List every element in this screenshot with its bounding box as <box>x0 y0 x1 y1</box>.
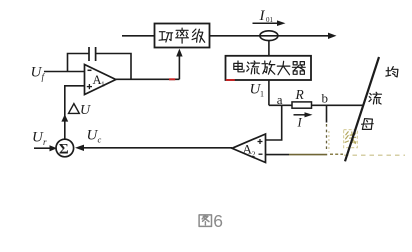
block current amplifier (dianliu fangdaqi) <box>226 56 312 80</box>
svg-text:b: b <box>322 91 329 106</box>
wire power stage output to right with arrow <box>210 35 329 37</box>
label Io1 with arrow <box>253 8 286 26</box>
wire sensor to current amp <box>268 41 270 56</box>
svg-text:I: I <box>259 8 266 24</box>
wire node b down (solid then dashed) <box>326 105 328 122</box>
wire current amp down to node line <box>268 80 270 105</box>
bus label jun <box>386 67 398 77</box>
block power stage (gonglvji) <box>155 24 210 48</box>
faint ghost box with xian char <box>344 130 358 148</box>
caption figure 6 <box>199 211 223 231</box>
wire stub left of power stage <box>122 35 155 37</box>
capacitor C (feedback) <box>89 47 96 61</box>
svg-text:c: c <box>98 135 102 145</box>
arrowhead up on deltaU wire <box>61 114 68 121</box>
label Uc <box>87 128 102 145</box>
resistor R <box>292 102 312 108</box>
label Ur with arrow <box>32 130 57 152</box>
svg-text:2: 2 <box>252 150 256 159</box>
current I arrow under R <box>294 112 313 129</box>
faint dashed vertical (ghost) <box>328 131 330 152</box>
svg-text:r: r <box>43 137 47 147</box>
wire sum to A1 non-inverting input <box>65 86 85 139</box>
wire up to power stage with arrow <box>178 56 180 80</box>
svg-text:R: R <box>295 87 305 102</box>
wire node a down to A2 + input <box>266 105 282 140</box>
svg-text:1: 1 <box>101 80 105 89</box>
label U1 <box>250 82 265 99</box>
wire A1 output <box>116 78 180 80</box>
wire feedback top right + down to output <box>96 54 131 80</box>
svg-text:Σ: Σ <box>59 142 69 158</box>
wire feedback loop left/top <box>68 54 89 72</box>
op-amp A2 (current share amp) <box>232 134 266 163</box>
wire node a to bus (horizontal) <box>269 104 364 106</box>
wire Uf to A1 inverting input <box>44 71 85 73</box>
red mark on output wire <box>169 78 175 80</box>
current sensor ellipse <box>260 31 278 41</box>
svg-text:a: a <box>277 92 283 107</box>
node Uf input label <box>31 65 46 83</box>
bus label mu <box>362 119 374 130</box>
op-amp A1 <box>85 65 116 95</box>
svg-text:I: I <box>297 116 303 130</box>
summing junction sigma <box>56 139 74 157</box>
faint dashed continuation to right <box>330 153 343 155</box>
red mark on block bottom edge <box>226 79 235 81</box>
svg-text:U: U <box>80 103 91 118</box>
wire A2 inverting input to bus <box>266 154 290 156</box>
svg-text:6: 6 <box>213 211 223 231</box>
current share bus diagonal <box>345 57 379 161</box>
svg-text:1: 1 <box>260 90 264 99</box>
node deltaU label <box>69 103 92 118</box>
bus label liu <box>369 92 382 104</box>
wire A2 output to summer (Uc) <box>84 147 232 149</box>
